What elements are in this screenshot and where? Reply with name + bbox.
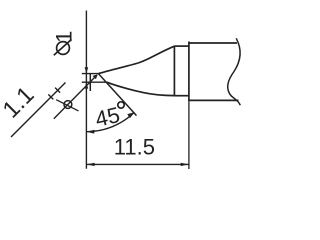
extension line, ø1 lower horizontal <box>82 81 107 83</box>
arrowhead of leader at bevel face <box>93 74 98 79</box>
tip bottom contour (trumpet flare) <box>107 82 175 95</box>
barrel bottom edge <box>189 99 239 101</box>
diameter symbol circle of ø1 label <box>57 42 70 55</box>
dimension line 11.5 horizontal <box>86 163 188 165</box>
dimension line 1.1 diagonal <box>11 83 66 138</box>
extension line, ø1 upper horizontal <box>82 73 99 75</box>
barrel top edge <box>189 42 237 44</box>
bevel edge 45° line (extended for angle dimension) <box>99 74 137 116</box>
arrowhead ø1 lower (points up) <box>85 82 89 88</box>
tick mark 1 on 1.1 dimension <box>48 94 53 99</box>
extension line, right vertical (11.5 right end) <box>188 101 190 169</box>
extension line, left vertical (shared by ø1 dimension, 45° angle leg and 11.5 left end) <box>85 11 87 169</box>
tick mark 2 on 1.1 dimension <box>55 88 60 93</box>
angle dimension arc 45° <box>86 112 134 131</box>
tip end face edge (short vertical bar) <box>89 73 91 91</box>
collar bottom edge <box>174 95 189 97</box>
break line (wavy cut at right end of barrel) <box>228 38 241 105</box>
diameter symbol slash of ø1 label <box>54 39 72 55</box>
svg-text:1.1: 1.1 <box>0 81 39 122</box>
neck-to-collar weld vertical edge <box>173 46 175 96</box>
arrowhead of angle arc at bevel line <box>127 112 134 118</box>
degree ring of 45° label <box>118 102 124 108</box>
arrowhead 11.5 right <box>181 163 189 166</box>
svg-text:1: 1 <box>52 31 77 43</box>
svg-text:11.5: 11.5 <box>114 135 155 160</box>
arrowhead 11.5 left <box>86 163 94 166</box>
diameter symbol circle on leader <box>64 101 72 109</box>
tip top contour (trumpet flare) <box>99 46 175 73</box>
arrowhead ø1 upper (points down) <box>85 67 89 73</box>
diameter symbol slash on leader <box>56 100 78 111</box>
arrowhead of angle arc at vertical leg <box>86 130 94 134</box>
barrel step vertical edge <box>188 42 190 102</box>
collar top edge <box>174 45 189 47</box>
leader line to bevel face <box>54 77 95 119</box>
